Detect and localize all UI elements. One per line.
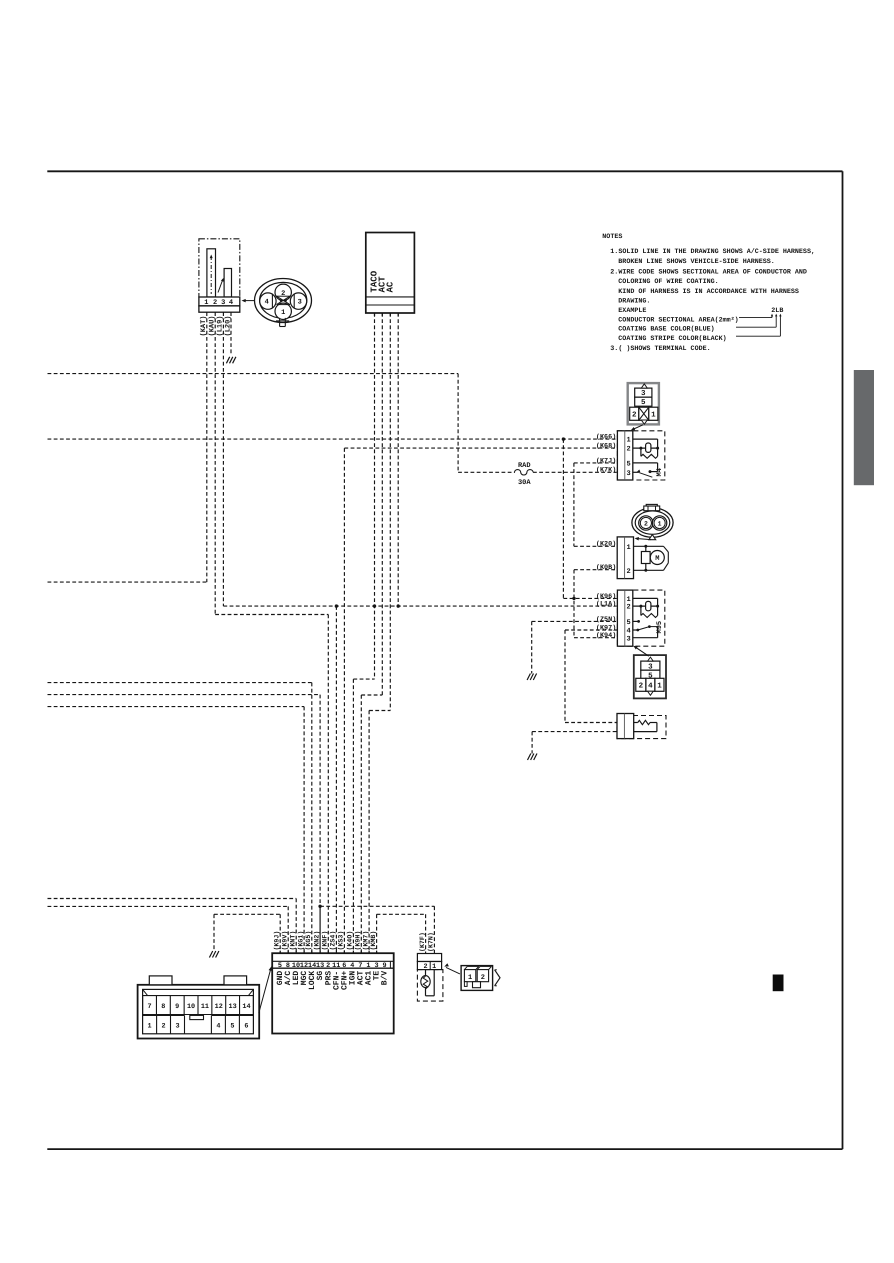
svg-text:10: 10	[292, 962, 300, 970]
svg-text:(K20): (K20)	[596, 541, 616, 549]
svg-text:3: 3	[626, 470, 630, 478]
svg-text:(K0B): (K0B)	[596, 564, 616, 572]
svg-text:(KMB): (KMB)	[370, 931, 377, 951]
svg-text:8: 8	[161, 1003, 165, 1011]
svg-text:7: 7	[358, 962, 362, 970]
svg-text:9: 9	[382, 962, 386, 970]
svg-text:14: 14	[242, 1003, 250, 1011]
svg-text:9: 9	[175, 1003, 179, 1011]
svg-text:10: 10	[187, 1003, 195, 1011]
svg-text:RAD: RAD	[518, 462, 531, 470]
svg-text:B/V: B/V	[381, 971, 390, 986]
svg-text:M95: M95	[656, 621, 664, 634]
svg-text:12: 12	[215, 1003, 223, 1011]
svg-text:COATING BASE COLOR(BLUE): COATING BASE COLOR(BLUE)	[618, 326, 714, 334]
svg-text:2.WIRE CODE SHOWS SECTIONAL AR: 2.WIRE CODE SHOWS SECTIONAL AREA OF COND…	[610, 269, 807, 277]
svg-text:1: 1	[651, 412, 656, 420]
svg-text:13: 13	[229, 1003, 237, 1011]
svg-text:(KG5): (KG5)	[305, 931, 312, 951]
svg-text:(K7J): (K7J)	[596, 457, 616, 465]
svg-text:2: 2	[162, 1023, 166, 1031]
svg-text:2LB: 2LB	[771, 307, 783, 315]
svg-text:3: 3	[374, 962, 378, 970]
svg-text:1.SOLID LINE IN THE DRAWING SH: 1.SOLID LINE IN THE DRAWING SHOWS A/C-SI…	[610, 248, 815, 256]
svg-text:5: 5	[626, 461, 630, 469]
svg-text:4: 4	[216, 1023, 220, 1031]
svg-text:COATING STRIPE COLOR(BLACK): COATING STRIPE COLOR(BLACK)	[618, 335, 726, 343]
svg-text:5: 5	[641, 399, 646, 407]
svg-text:(K7N): (K7N)	[428, 932, 435, 952]
svg-text:1: 1	[468, 974, 472, 982]
svg-text:2: 2	[639, 682, 644, 691]
svg-text:(K9V): (K9V)	[282, 931, 289, 951]
svg-text:2: 2	[626, 568, 630, 576]
svg-text:6: 6	[244, 1023, 248, 1031]
svg-text:KIND OF HARNESS IS IN ACCORDAN: KIND OF HARNESS IS IN ACCORDANCE WITH HA…	[618, 288, 799, 296]
svg-text:CONDUCTOR SECTIONAL AREA(2mm²): CONDUCTOR SECTIONAL AREA(2mm²)	[618, 316, 738, 324]
svg-text:7: 7	[147, 1003, 151, 1011]
svg-text:(KG1): (KG1)	[297, 931, 304, 951]
svg-text:(K68): (K68)	[596, 443, 616, 451]
svg-text:EXAMPLE: EXAMPLE	[618, 307, 646, 315]
svg-text:6: 6	[342, 962, 346, 970]
svg-text:30A: 30A	[518, 479, 531, 487]
svg-text:(K66): (K66)	[596, 434, 616, 442]
svg-text:NOTES: NOTES	[602, 233, 622, 241]
svg-text:2: 2	[481, 974, 485, 982]
svg-text:4: 4	[265, 299, 269, 307]
svg-text:(K4O): (K4O)	[347, 931, 354, 951]
svg-text:(L1A): (L1A)	[596, 601, 616, 609]
svg-text:(K9H): (K9H)	[355, 931, 362, 951]
svg-text:3: 3	[298, 299, 302, 307]
svg-text:4: 4	[229, 299, 233, 307]
svg-text:1: 1	[657, 683, 662, 691]
svg-text:M4: M4	[656, 468, 664, 476]
svg-text:(Z5N): (Z5N)	[596, 616, 616, 624]
svg-text:3.( )SHOWS TERMINAL CODE.: 3.( )SHOWS TERMINAL CODE.	[610, 345, 710, 353]
svg-text:(ZS4): (ZS4)	[330, 931, 337, 951]
svg-text:1: 1	[366, 962, 370, 970]
svg-text:2: 2	[632, 411, 637, 420]
svg-text:M: M	[655, 555, 659, 563]
svg-text:(KS3): (KS3)	[338, 931, 345, 951]
svg-text:5: 5	[278, 962, 282, 970]
svg-text:(K9J): (K9J)	[274, 931, 281, 951]
svg-text:COLORING OF WIRE COATING.: COLORING OF WIRE COATING.	[618, 278, 718, 286]
svg-text:(K94): (K94)	[596, 632, 616, 640]
svg-text:(KAU): (KAU)	[207, 315, 216, 336]
svg-text:11: 11	[332, 962, 340, 970]
svg-text:AC: AC	[385, 281, 395, 292]
svg-text:2: 2	[326, 962, 330, 970]
svg-text:1: 1	[658, 521, 662, 528]
svg-text:(KNF): (KNF)	[322, 931, 329, 951]
svg-text:1: 1	[626, 544, 630, 552]
svg-text:5: 5	[626, 619, 630, 627]
svg-text:3: 3	[175, 1023, 179, 1031]
svg-text:BROKEN LINE SHOWS VEHICLE-SIDE: BROKEN LINE SHOWS VEHICLE-SIDE HARNESS.	[618, 258, 775, 266]
svg-text:2: 2	[626, 604, 630, 612]
svg-text:1: 1	[281, 309, 285, 317]
svg-text:(KAT): (KAT)	[199, 315, 208, 336]
svg-text:2: 2	[644, 521, 648, 528]
svg-text:(L20): (L20)	[223, 315, 232, 336]
svg-text:2: 2	[213, 299, 217, 307]
svg-text:(KN2): (KN2)	[313, 931, 320, 951]
svg-text:4: 4	[350, 962, 354, 970]
svg-text:1: 1	[626, 437, 630, 445]
svg-text:3: 3	[221, 299, 225, 307]
svg-text:5: 5	[230, 1023, 234, 1031]
svg-text:3: 3	[626, 635, 630, 643]
svg-text:(KNT): (KNT)	[290, 931, 297, 951]
svg-text:12: 12	[300, 962, 308, 970]
svg-text:(K7F): (K7F)	[419, 932, 426, 952]
svg-text:11: 11	[201, 1003, 209, 1011]
svg-text:2: 2	[626, 446, 630, 454]
svg-text:(K7K): (K7K)	[596, 467, 616, 475]
svg-text:1: 1	[148, 1023, 152, 1031]
svg-text:DRAWING.: DRAWING.	[618, 298, 650, 306]
svg-text:14: 14	[308, 962, 316, 970]
svg-text:(L19): (L19)	[216, 315, 225, 336]
svg-text:4: 4	[648, 683, 653, 691]
svg-text:1: 1	[204, 299, 208, 307]
svg-text:13: 13	[316, 962, 324, 970]
svg-text:8: 8	[286, 962, 290, 970]
svg-text:(KM7): (KM7)	[362, 931, 369, 951]
